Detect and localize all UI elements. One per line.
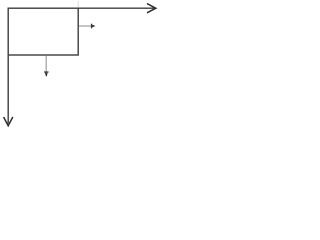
small down arrow shaft — [45, 56, 47, 73]
stub above box right edge — [77, 1, 79, 8]
small right arrow shaft — [79, 25, 91, 27]
box — [8, 8, 78, 55]
wire: horizontal axis line — [8, 7, 154, 9]
small right arrowhead — [91, 24, 92, 29]
arrowhead: open right arrow — [147, 4, 156, 13]
arrowhead: open down arrow — [4, 117, 13, 126]
small down arrowhead — [44, 71, 49, 72]
wire: vertical axis line — [7, 8, 9, 124]
